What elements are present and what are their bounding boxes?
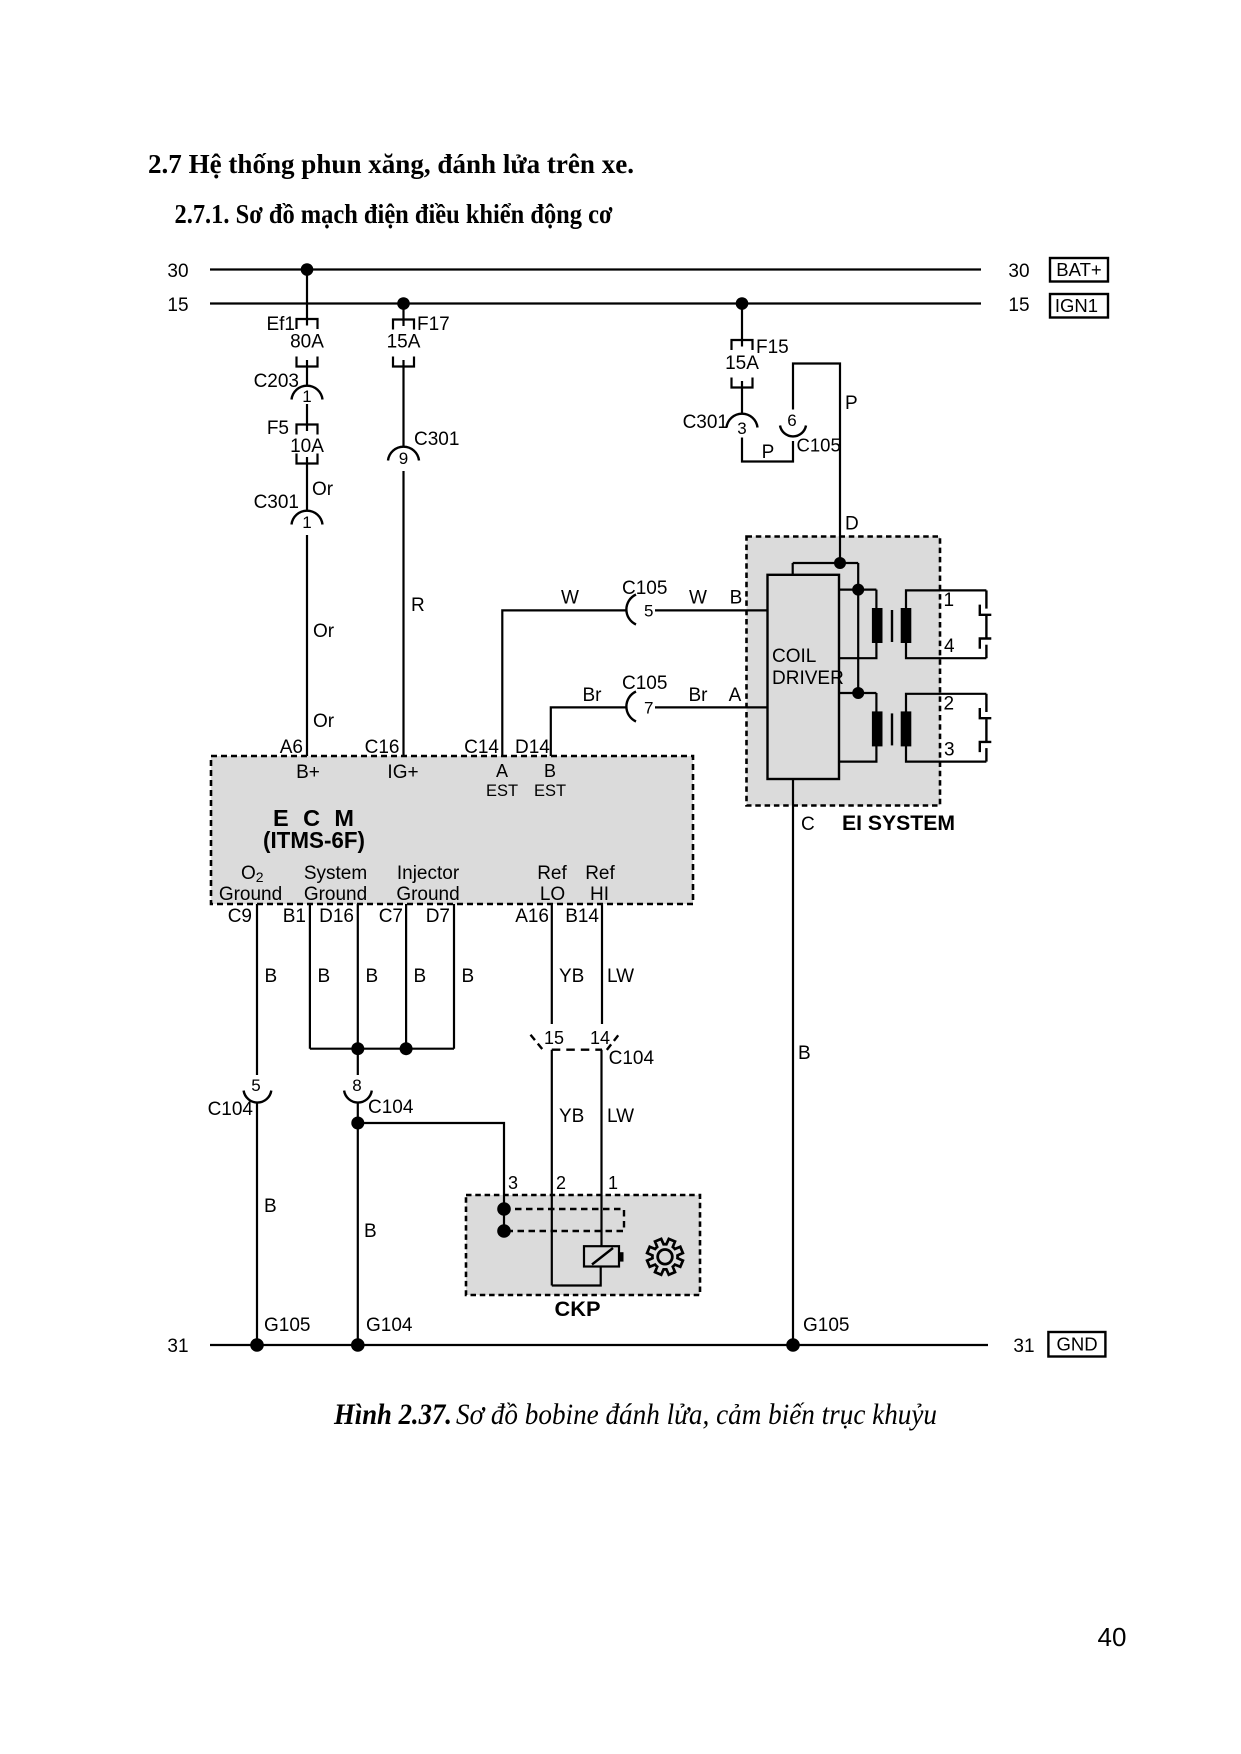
svg-text:7: 7 xyxy=(644,699,653,718)
wire C104 pin8 to ground G104 xyxy=(357,1104,359,1346)
connector C104 pin 5 xyxy=(244,1076,272,1103)
svg-text:COIL: COIL xyxy=(772,646,816,667)
wire EST A from ECM C14 to C105 pin5 xyxy=(502,610,627,756)
CKP reluctor gear icon xyxy=(647,1239,683,1275)
wire to coil1 primary xyxy=(875,590,877,609)
svg-text:B: B xyxy=(265,966,278,987)
svg-text:B: B xyxy=(414,966,427,987)
svg-text:A16: A16 xyxy=(515,906,549,927)
wire C301 pin3 down and right to C105 pin6 xyxy=(742,438,793,462)
svg-text:CKP: CKP xyxy=(555,1297,601,1321)
svg-text:B: B xyxy=(798,1043,811,1064)
wire T1 secondary top to plug 1 xyxy=(906,590,986,609)
svg-text:C203: C203 xyxy=(254,371,299,392)
wire C105 pin7 to coil driver A xyxy=(655,706,768,708)
svg-text:LO: LO xyxy=(540,884,565,905)
terminal label Injector Ground xyxy=(396,863,460,905)
connector C105 pin 6 xyxy=(780,411,806,436)
connector C105 pin 5 xyxy=(626,595,653,625)
ignition coil T1 primary winding xyxy=(872,608,883,643)
terminal label Ref HI xyxy=(585,863,615,905)
svg-text:15: 15 xyxy=(544,1028,564,1048)
svg-text:30: 30 xyxy=(1008,261,1029,282)
svg-text:1: 1 xyxy=(944,590,955,611)
svg-text:IG+: IG+ xyxy=(387,762,418,783)
svg-text:B: B xyxy=(364,1221,377,1242)
svg-text:A: A xyxy=(496,761,508,781)
svg-text:14: 14 xyxy=(590,1028,610,1048)
wire pin2 into CKP xyxy=(551,1195,553,1286)
wire B14 to connector C104 pin14 xyxy=(601,904,603,1024)
wire T1 secondary bottom to plug 4 xyxy=(906,642,986,658)
wire bus15 to fuse F17 xyxy=(402,304,404,320)
svg-text:B: B xyxy=(264,1196,277,1217)
wire C9 to connector C104 pin5 xyxy=(256,904,258,1075)
wire C104 pin5 to ground G105 xyxy=(256,1104,258,1346)
wire EST B from ECM D14 to C105 pin7 xyxy=(551,707,627,756)
svg-text:1: 1 xyxy=(302,387,311,406)
svg-text:B14: B14 xyxy=(565,906,599,927)
connector C105 pin 7 xyxy=(626,692,653,722)
svg-text:G105: G105 xyxy=(264,1315,310,1336)
svg-text:EI SYSTEM: EI SYSTEM xyxy=(842,811,955,835)
connector C104 pins 15 14 xyxy=(531,1028,619,1051)
svg-text:B: B xyxy=(730,588,743,609)
svg-text:3: 3 xyxy=(737,419,746,438)
terminal label System Ground xyxy=(304,863,367,905)
fuse F5 10A xyxy=(297,425,318,464)
wire pin3 into CKP xyxy=(503,1195,505,1209)
svg-text:C104: C104 xyxy=(368,1097,414,1118)
wire fuse F5 to connector C301 pin1 xyxy=(306,464,308,512)
spark plug gap 1 xyxy=(980,590,992,614)
bus 30 rail xyxy=(210,268,981,270)
ignition coil T2 primary winding xyxy=(872,711,883,746)
svg-text:R: R xyxy=(411,595,425,616)
svg-text:6: 6 xyxy=(787,411,796,430)
EI SYSTEM dashed enclosure xyxy=(747,537,941,806)
wire C105 pin6 up right and down to EI system (net P/D) xyxy=(793,364,840,538)
junction CKP shield tap xyxy=(351,1117,364,1130)
junction coil1 supply xyxy=(852,584,864,596)
svg-text:B: B xyxy=(366,966,379,987)
terminal label A EST xyxy=(486,761,518,800)
svg-text:C104: C104 xyxy=(609,1048,655,1069)
wire C301 pin9 to ECM pin C16 xyxy=(402,471,404,756)
wire C7 from ECM xyxy=(405,904,407,1049)
svg-text:IGN1: IGN1 xyxy=(1055,295,1098,316)
svg-text:W: W xyxy=(561,588,579,609)
ground bus 31 rail xyxy=(210,1344,988,1346)
CKP pickup coil element xyxy=(584,1246,624,1266)
wire C203 to fuse F5 xyxy=(306,404,308,425)
fuse F17 15A xyxy=(393,320,414,367)
svg-text:1: 1 xyxy=(302,513,311,532)
coil driver U1 box xyxy=(768,575,840,779)
ignition coil T1 secondary winding xyxy=(901,608,912,643)
shield junction lower xyxy=(497,1224,511,1238)
svg-text:YB: YB xyxy=(559,966,584,987)
spark plug gap 2 xyxy=(980,694,992,718)
svg-text:P: P xyxy=(845,393,858,414)
svg-text:Or: Or xyxy=(312,479,334,500)
wire down to coil driver supply xyxy=(792,563,794,575)
junction on bus 15 at x742 xyxy=(736,297,749,310)
figure caption xyxy=(333,1399,937,1431)
wire B1 from ECM xyxy=(309,904,311,1049)
wire coil2 primary bottom return xyxy=(839,745,876,761)
svg-text:DRIVER: DRIVER xyxy=(772,668,844,689)
svg-text:EST: EST xyxy=(534,782,566,800)
wire T2 secondary bottom to plug 3 xyxy=(906,745,986,761)
svg-text:15: 15 xyxy=(167,295,188,316)
shield junction upper xyxy=(497,1202,511,1216)
ignition coil T2 secondary winding xyxy=(901,711,912,746)
svg-text:F15: F15 xyxy=(756,337,789,358)
svg-text:B1: B1 xyxy=(283,906,306,927)
svg-text:Or: Or xyxy=(313,711,335,732)
connector C301 pin 9 xyxy=(388,447,419,468)
svg-text:G104: G104 xyxy=(366,1315,413,1336)
wire bus15 to fuse F15 xyxy=(741,304,743,341)
svg-text:YB: YB xyxy=(559,1106,584,1127)
bus 15 rail xyxy=(210,302,981,304)
svg-text:Or: Or xyxy=(313,621,335,642)
wire A16 to connector C104 pin15 xyxy=(551,904,553,1024)
junction C7 tie xyxy=(400,1042,413,1055)
terminal label O2 Ground xyxy=(219,863,282,905)
svg-text:2.7.1. Sơ đồ mạch điện điều kh: 2.7.1. Sơ đồ mạch điện điều khiển động c… xyxy=(175,199,613,229)
svg-text:B: B xyxy=(462,966,475,987)
svg-text:C: C xyxy=(801,814,815,835)
wire pin1 into CKP xyxy=(600,1195,602,1247)
terminal label Ref LO xyxy=(537,863,567,905)
svg-text:2: 2 xyxy=(944,694,955,715)
svg-text:Br: Br xyxy=(689,685,709,706)
wire C301 pin1 to ECM pin A6 xyxy=(306,535,308,756)
svg-text:10A: 10A xyxy=(290,436,324,457)
terminal label B EST xyxy=(534,761,566,800)
svg-text:5: 5 xyxy=(251,1076,260,1095)
svg-text:15A: 15A xyxy=(387,332,421,353)
wire coil1 primary top xyxy=(839,588,876,590)
svg-text:HI: HI xyxy=(590,884,609,905)
spark plug gap 4 xyxy=(980,616,992,658)
wire fuse F15 to connector C301 pin3 xyxy=(741,388,743,415)
svg-text:D: D xyxy=(845,514,859,535)
svg-text:31: 31 xyxy=(167,1336,188,1357)
connector C104 pin 8 xyxy=(344,1076,372,1103)
svg-text:Ground: Ground xyxy=(304,884,367,905)
svg-text:Br: Br xyxy=(583,685,603,706)
shield stub wire xyxy=(503,1209,505,1231)
svg-text:A: A xyxy=(729,685,742,706)
junction on bus 30 at x307 xyxy=(301,263,314,276)
ground G104 junction xyxy=(351,1338,365,1352)
junction coil2 supply xyxy=(852,687,864,699)
shield dashed loop xyxy=(504,1209,624,1231)
connector C301 pin 3 xyxy=(727,414,758,438)
svg-text:D7: D7 xyxy=(426,906,450,927)
svg-text:1: 1 xyxy=(608,1173,618,1193)
svg-text:B: B xyxy=(318,966,331,987)
svg-text:W: W xyxy=(689,588,707,609)
svg-text:Sơ đồ bobine đánh lửa, cảm biế: Sơ đồ bobine đánh lửa, cảm biến trục khu… xyxy=(456,1399,937,1431)
svg-text:C105: C105 xyxy=(797,435,841,456)
wire D16 from ECM xyxy=(357,904,359,1075)
svg-text:3: 3 xyxy=(508,1173,518,1193)
svg-text:C104: C104 xyxy=(208,1099,254,1120)
junction D16 tie xyxy=(351,1042,364,1055)
wire CKP pin2 return xyxy=(552,1267,601,1286)
svg-text:31: 31 xyxy=(1013,1336,1034,1357)
svg-text:C301: C301 xyxy=(414,429,459,450)
fuse Ef1 80A xyxy=(297,319,318,367)
svg-text:System: System xyxy=(304,863,367,884)
svg-text:Ground: Ground xyxy=(219,884,282,905)
wire D into EI box xyxy=(839,536,841,563)
svg-text:40: 40 xyxy=(1098,1622,1127,1652)
CKP sensor dashed box xyxy=(466,1195,700,1295)
wire C105 pin5 to coil driver B xyxy=(655,609,768,611)
wire shield tap to CKP pin3 xyxy=(358,1123,504,1209)
wire bus30 to fuse Ef1 xyxy=(306,270,308,320)
wire fuse F17 to connector C301 pin9 xyxy=(402,367,404,448)
svg-text:C301: C301 xyxy=(254,492,299,513)
wire coil1 primary bottom return xyxy=(839,642,876,658)
BAT+ terminal box xyxy=(1050,258,1108,282)
svg-text:BAT+: BAT+ xyxy=(1056,259,1101,280)
svg-text:Injector: Injector xyxy=(397,863,460,884)
wire supply rail to both coils xyxy=(857,563,859,693)
svg-text:Ref: Ref xyxy=(585,863,615,884)
ignition coil T2 core xyxy=(891,713,893,745)
svg-text:4: 4 xyxy=(944,636,955,657)
svg-text:30: 30 xyxy=(167,261,188,282)
ignition coil T1 core xyxy=(891,610,893,642)
junction D feed xyxy=(834,557,846,569)
ground G105 right junction xyxy=(786,1338,800,1352)
ground bus tie of B1 D16 C7 D7 xyxy=(310,1048,454,1050)
svg-text:2.7 Hệ thống phun xăng, đánh l: 2.7 Hệ thống phun xăng, đánh lửa trên xe… xyxy=(148,149,634,179)
svg-text:(ITMS-6F): (ITMS-6F) xyxy=(263,827,365,853)
connector C203 pin 1 xyxy=(292,386,323,406)
svg-text:15: 15 xyxy=(1008,295,1029,316)
GND terminal box xyxy=(1048,1332,1105,1357)
fuse F15 15A xyxy=(732,340,753,388)
label COIL DRIVER xyxy=(772,646,844,689)
svg-text:F5: F5 xyxy=(267,418,289,439)
svg-text:GND: GND xyxy=(1056,1334,1097,1355)
wire to coil2 primary xyxy=(875,693,877,712)
svg-text:B: B xyxy=(544,761,556,781)
ground G105 left junction xyxy=(250,1338,264,1352)
ECM dashed box xyxy=(211,756,693,904)
svg-text:80A: 80A xyxy=(290,332,324,353)
wire horizontal feed inside EI box xyxy=(793,562,859,564)
svg-text:5: 5 xyxy=(644,602,653,621)
svg-text:C7: C7 xyxy=(379,906,403,927)
svg-text:Ref: Ref xyxy=(537,863,567,884)
svg-text:G105: G105 xyxy=(803,1315,849,1336)
connector C301 pin 1 xyxy=(292,511,323,532)
svg-text:Ground: Ground xyxy=(396,884,459,905)
IGN1 terminal box xyxy=(1050,294,1108,318)
svg-text:2: 2 xyxy=(556,1173,566,1193)
wire fuse Ef1 to connector C203 xyxy=(306,367,308,387)
svg-text:D16: D16 xyxy=(319,906,354,927)
svg-text:P: P xyxy=(762,442,775,463)
svg-text:B+: B+ xyxy=(296,762,320,783)
spark plug gap 3 xyxy=(980,719,992,761)
svg-text:3: 3 xyxy=(944,740,955,761)
svg-text:LW: LW xyxy=(607,1106,634,1127)
svg-text:F17: F17 xyxy=(417,314,450,335)
wire C104 pin14 to CKP pin1 xyxy=(600,1050,602,1247)
svg-text:15A: 15A xyxy=(725,353,759,374)
wire C from coil driver to ground bus xyxy=(792,779,794,1345)
svg-text:C105: C105 xyxy=(622,578,667,599)
svg-text:8: 8 xyxy=(352,1076,361,1095)
wire T2 secondary top to plug 2 xyxy=(906,694,986,713)
svg-text:9: 9 xyxy=(399,449,408,468)
svg-text:C301: C301 xyxy=(683,412,728,433)
junction on bus 15 at x403 xyxy=(397,297,410,310)
svg-text:EST: EST xyxy=(486,782,518,800)
svg-text:C9: C9 xyxy=(228,906,252,927)
wire C104 pin15 to CKP pin2 xyxy=(551,1050,553,1286)
wire coil2 primary top xyxy=(839,692,876,694)
svg-text:LW: LW xyxy=(607,966,634,987)
wire D7 from ECM xyxy=(453,904,455,1049)
svg-text:C105: C105 xyxy=(622,673,667,694)
svg-text:Hình 2.37.: Hình 2.37. xyxy=(333,1399,452,1431)
